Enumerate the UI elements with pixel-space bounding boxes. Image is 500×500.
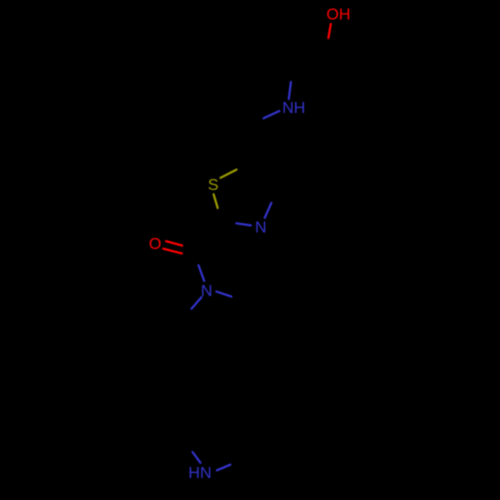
svg-text:OH: OH xyxy=(326,6,350,23)
bond N3-C9 blue half xyxy=(192,297,202,309)
bond N2-C4 blue half xyxy=(265,203,272,218)
svg-text:S: S xyxy=(208,177,219,194)
bond N2-C6 blue half xyxy=(236,223,251,225)
bond N1-C3 blue half xyxy=(264,111,280,118)
bond O2=C7 double bond upper red half xyxy=(166,241,182,245)
svg-text:N: N xyxy=(255,219,267,236)
bond N3-C7 blue half xyxy=(199,265,205,281)
bond O1-C1 red half xyxy=(328,24,330,38)
bond O2=C7 double bond lower red half xyxy=(163,249,182,254)
svg-text:NH: NH xyxy=(282,100,305,117)
bond N4-C10 blue half xyxy=(193,452,201,463)
bond N3-C8 blue half xyxy=(216,292,231,297)
svg-text:O: O xyxy=(149,236,161,253)
bond S1-C6 olive half xyxy=(214,194,218,208)
svg-text:N: N xyxy=(201,283,213,300)
bond S1-C5 olive half xyxy=(221,170,237,178)
svg-text:HN: HN xyxy=(188,465,211,482)
bond N1-C2 blue half xyxy=(289,82,291,99)
bond N4-C11 blue half xyxy=(217,465,230,471)
